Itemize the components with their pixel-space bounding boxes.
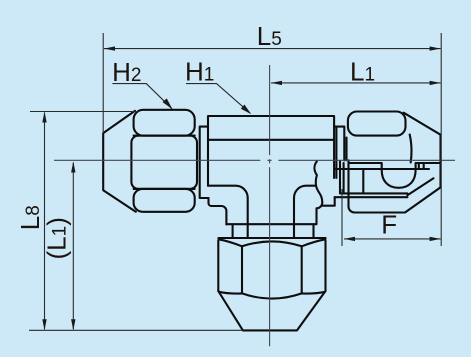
left nut band boundary lines <box>134 136 195 189</box>
neck left (between left nut and body) <box>200 127 209 198</box>
arrowheads L5 <box>104 46 115 50</box>
arrowheads L8 <box>42 112 46 123</box>
extension line F left <box>341 189 343 246</box>
right nut top band <box>348 112 406 136</box>
neck right (between body and right nut) <box>334 127 344 178</box>
right nut section thread lines <box>344 163 440 193</box>
dimension line (L1) <box>72 163 74 330</box>
left step contour <box>209 198 227 224</box>
centerline horizontal <box>54 159 455 161</box>
arrowheads F <box>344 237 355 241</box>
right nut cone external <box>404 113 441 188</box>
dimension line L1 <box>271 82 441 84</box>
arrowhead H1 <box>241 105 252 115</box>
bottom nut bottom arcs <box>219 292 325 294</box>
bottom nut middle top arc <box>242 241 302 246</box>
right nut band bottom extension <box>347 135 412 163</box>
bottom nut middle bottom arc <box>242 293 302 298</box>
dimension line F <box>344 238 441 240</box>
bottom nut cone <box>218 291 325 330</box>
extension line bottom <box>29 329 243 331</box>
bottom nut top edge <box>218 237 325 239</box>
right nut section bore line <box>334 168 429 170</box>
left nut cone <box>103 111 136 212</box>
body bottom right + fillet to branch right <box>294 186 316 238</box>
left nut middle band <box>131 136 197 189</box>
extension line right (L5/L1/F) <box>440 33 442 246</box>
body bottom left + fillet to branch left <box>208 186 248 238</box>
bottom nut facet lines <box>242 246 302 293</box>
section vase curve right of body <box>314 161 322 224</box>
dimension line L5 <box>104 48 441 50</box>
section step right of vase <box>322 197 335 206</box>
svg-text:F: F <box>381 210 397 240</box>
bottom nut flange <box>226 224 316 238</box>
arrowheads L1 <box>271 81 282 85</box>
body outline <box>208 116 334 186</box>
left nut top band <box>134 110 195 136</box>
arrowhead H2 <box>163 98 173 109</box>
right nut section outer lower <box>349 160 441 212</box>
bottom nut top chamfer arcs <box>219 239 326 246</box>
right nut section inner steps <box>335 161 434 197</box>
ferrule arc <box>382 164 416 188</box>
H1 leader <box>186 84 250 113</box>
arrowheads (L1) <box>71 162 75 173</box>
dimension line L8 <box>44 113 46 330</box>
H2 leader <box>112 84 172 109</box>
svg-text:(L1): (L1) <box>42 217 72 259</box>
extension line L5 left <box>102 33 104 133</box>
centerline vertical <box>269 65 271 346</box>
bottom nut outer flats <box>218 241 325 292</box>
extension line L8 top <box>30 111 138 113</box>
left nut bottom band <box>134 189 195 212</box>
